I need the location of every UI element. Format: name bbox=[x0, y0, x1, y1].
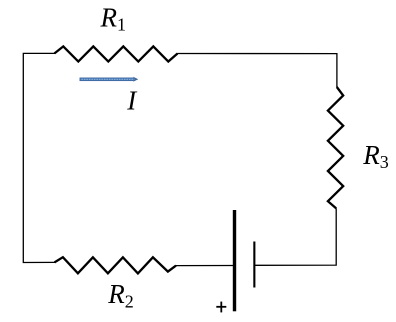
resistor R1 bbox=[55, 46, 178, 61]
arrow I (current direction) bbox=[80, 77, 138, 82]
battery long plate (positive) bbox=[233, 210, 236, 311]
svg-text:R2: R2 bbox=[107, 279, 134, 311]
wire: right-bottom stub + bottom-right to battery short plate bbox=[255, 208, 336, 265]
wire: top-right + right-top stub bbox=[177, 54, 337, 88]
battery short plate (negative) bbox=[253, 242, 255, 288]
svg-text:R3: R3 bbox=[362, 140, 389, 172]
label + (battery positive) bbox=[216, 302, 226, 313]
svg-text:I: I bbox=[126, 85, 138, 115]
resistor R2 bbox=[55, 257, 177, 273]
svg-text:R1: R1 bbox=[100, 3, 127, 35]
resistor R3 bbox=[328, 87, 343, 208]
wire: left vertical + bottom-left stub + top-left stub bbox=[23, 53, 55, 262]
wire: battery long plate to R2 bbox=[176, 265, 233, 267]
